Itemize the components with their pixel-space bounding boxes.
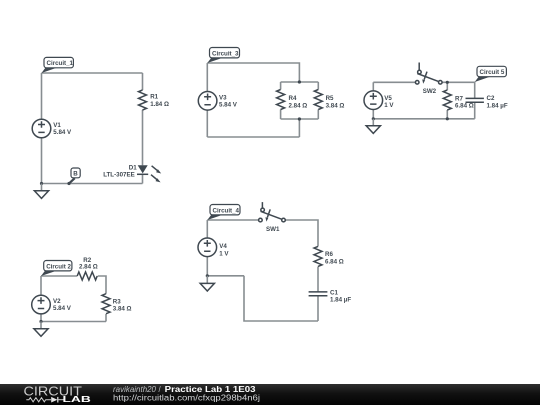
label R1 xyxy=(150,94,158,101)
label R5 value xyxy=(326,102,345,109)
svg-text:D1: D1 xyxy=(129,164,137,171)
label R6 value xyxy=(325,259,344,266)
label V1 xyxy=(53,122,61,129)
svg-text:R3: R3 xyxy=(113,298,121,305)
wire Circuit 5 top right xyxy=(442,82,475,98)
label V3 value xyxy=(219,102,238,109)
svg-text:R7: R7 xyxy=(455,95,463,102)
svg-text:V3: V3 xyxy=(219,94,227,101)
wire Circuit_4 V4 top lead xyxy=(206,220,208,238)
label D1 xyxy=(129,164,137,171)
wire Circuit_1 right middle xyxy=(142,110,144,165)
net flag Circuit_4 xyxy=(207,205,240,221)
label R2 xyxy=(83,257,91,264)
CircuitLab logo resistor-diode squiggle xyxy=(26,397,64,403)
capacitor C1 xyxy=(309,292,328,296)
wire Circuit_3 R5 leads xyxy=(317,82,319,119)
voltage source V5 xyxy=(364,91,383,110)
wire Circuit_4 top left xyxy=(207,219,258,221)
label R7 value xyxy=(455,103,474,110)
voltage source V1 xyxy=(32,119,51,138)
footer line 1: title xyxy=(165,385,257,394)
svg-text:Circuit_4: Circuit_4 xyxy=(213,207,240,214)
svg-text:SW1: SW1 xyxy=(266,226,280,233)
label R3 xyxy=(113,298,121,305)
svg-text:http://circuitlab.com/cfxqp298: http://circuitlab.com/cfxqp298b4n6j xyxy=(113,394,260,403)
svg-text:1.84 µF: 1.84 µF xyxy=(487,102,508,109)
wire Circuit_3 bottom xyxy=(207,136,299,138)
label R7 xyxy=(455,95,463,102)
junction Circuit_1 ground node xyxy=(40,182,43,185)
net flag Circuit 5 xyxy=(475,66,507,82)
svg-text:C1: C1 xyxy=(330,289,338,296)
svg-text:6.84 Ω: 6.84 Ω xyxy=(325,259,344,266)
wire Circuit 2 bottom xyxy=(41,321,106,323)
footer line 1: slash xyxy=(159,385,162,394)
node flag B xyxy=(67,168,80,185)
svg-text:3.84 Ω: 3.84 Ω xyxy=(113,305,132,312)
wire Circuit_4 bottom xyxy=(244,276,318,321)
svg-text:Circuit 5: Circuit 5 xyxy=(480,69,505,76)
label SW1 xyxy=(266,226,280,233)
svg-text:R5: R5 xyxy=(326,95,334,102)
svg-text:Circuit_1: Circuit_1 xyxy=(47,60,74,67)
resistor R2 xyxy=(77,272,97,280)
wire Circuit 2 top left xyxy=(41,275,77,277)
label V3 xyxy=(219,94,227,101)
label C2 value xyxy=(487,102,508,109)
label C1 xyxy=(330,289,338,296)
wire Circuit_3 parallel top bar xyxy=(281,81,319,83)
wire Circuit_3 R4 leads xyxy=(280,82,282,119)
svg-text:1 V: 1 V xyxy=(219,250,229,257)
CircuitLab logo wordmark CIRCUIT xyxy=(24,384,83,399)
label V2 xyxy=(53,298,61,305)
svg-text:3.84 Ω: 3.84 Ω xyxy=(326,102,345,109)
wire Circuit 2 top right xyxy=(98,276,106,294)
voltage source V3 xyxy=(198,92,217,111)
resistor R4 xyxy=(277,90,285,110)
wire Circuit_3 parallel bottom bar xyxy=(281,118,319,120)
wire Circuit 2 left upper xyxy=(40,276,42,295)
wire Circuit 5 R7 leads xyxy=(446,82,448,119)
label R4 xyxy=(289,95,297,102)
svg-text:R4: R4 xyxy=(289,95,297,102)
svg-text:Circuit 2: Circuit 2 xyxy=(46,263,71,270)
svg-text:1.84 µF: 1.84 µF xyxy=(330,297,351,304)
label R3 value xyxy=(113,305,132,312)
label V5 value xyxy=(384,102,394,109)
switch SW1 xyxy=(259,202,286,222)
label SW2 xyxy=(423,88,437,95)
wire Circuit 5 V5 top lead xyxy=(372,82,374,91)
junction Circuit 5 R7 top xyxy=(446,81,449,84)
wire Circuit_4 right lower xyxy=(317,296,319,321)
capacitor C2 xyxy=(466,98,484,102)
svg-text:LAB: LAB xyxy=(63,394,91,404)
ground (Circuit_1) xyxy=(34,184,48,199)
label C2 xyxy=(487,95,495,102)
label R5 xyxy=(326,95,334,102)
wire Circuit 5 V5 bottom lead xyxy=(372,110,374,119)
label D1 part number xyxy=(103,172,135,179)
svg-text:1.84 Ω: 1.84 Ω xyxy=(150,101,169,108)
junction Circuit_4 ground node xyxy=(206,274,209,277)
wire Circuit_1 top xyxy=(42,72,143,74)
ground (Circuit 5) xyxy=(366,119,380,134)
resistor R6 xyxy=(314,246,322,266)
svg-text:C2: C2 xyxy=(487,95,495,102)
svg-text:6.84 Ω: 6.84 Ω xyxy=(455,103,474,110)
junction Circuit 5 ground node xyxy=(372,117,375,120)
voltage source V4 xyxy=(198,238,217,257)
label V4 value xyxy=(219,250,229,257)
svg-text:LTL-307EE: LTL-307EE xyxy=(103,172,135,179)
LED D1 xyxy=(137,165,161,182)
footer line 1: user name xyxy=(113,385,157,394)
label R2 value xyxy=(79,264,98,271)
resistor R5 xyxy=(314,90,322,110)
svg-text:R1: R1 xyxy=(150,94,158,101)
footer line 2: url xyxy=(113,394,260,403)
label V2 value xyxy=(53,305,72,312)
svg-text:1 V: 1 V xyxy=(384,102,394,109)
net flag Circuit_3 xyxy=(207,48,239,64)
switch SW2 xyxy=(415,63,442,85)
svg-text:Circuit_3: Circuit_3 xyxy=(212,50,239,57)
resistor R1 xyxy=(139,90,147,110)
label C1 value xyxy=(330,297,351,304)
wire Circuit_4 right middle xyxy=(317,267,319,292)
wire Circuit_1 right upper xyxy=(142,73,144,90)
svg-text:B: B xyxy=(73,171,78,178)
voltage source V2 xyxy=(32,295,51,314)
wire Circuit_4 return xyxy=(207,275,244,277)
resistor R7 xyxy=(443,90,451,110)
ground (Circuit 2) xyxy=(34,322,48,337)
svg-text:2.84 Ω: 2.84 Ω xyxy=(79,264,98,271)
wire Circuit_1 left upper xyxy=(41,73,43,119)
svg-text:5.84 V: 5.84 V xyxy=(219,102,238,109)
svg-text:2.84 Ω: 2.84 Ω xyxy=(289,102,308,109)
wire Circuit_3 right lower xyxy=(298,119,300,137)
svg-text:R6: R6 xyxy=(325,251,333,258)
svg-text:V4: V4 xyxy=(219,243,227,250)
label R1 value xyxy=(150,101,169,108)
wire Circuit 2 right lower xyxy=(105,314,107,322)
junction Circuit_3 top node xyxy=(298,80,301,83)
label R6 xyxy=(325,251,333,258)
wire Circuit_4 V4 bottom lead xyxy=(206,256,208,275)
resistor R3 xyxy=(102,294,110,314)
wire Circuit 5 top left xyxy=(373,81,415,83)
wire Circuit 5 bottom xyxy=(373,118,474,120)
label V4 xyxy=(219,243,227,250)
svg-text:V1: V1 xyxy=(53,122,61,129)
junction Circuit_3 bottom node xyxy=(298,117,301,120)
svg-text:V5: V5 xyxy=(384,95,392,102)
CircuitLab logo wordmark LAB xyxy=(63,394,91,404)
net flag Circuit_1 xyxy=(42,57,74,73)
junction Circuit 5 R7 bottom xyxy=(446,117,449,120)
junction Circuit 2 ground node xyxy=(39,320,42,323)
wire Circuit_3 left upper xyxy=(206,63,208,92)
svg-text:SW2: SW2 xyxy=(423,88,437,95)
wire Circuit_3 left lower xyxy=(206,110,208,137)
svg-text:V2: V2 xyxy=(53,298,61,305)
label V1 value xyxy=(53,129,72,136)
net flag Circuit 2 xyxy=(41,261,72,277)
svg-text:5.84 V: 5.84 V xyxy=(53,305,72,312)
wire Circuit_1 bottom xyxy=(42,183,143,185)
wire Circuit_1 right lower xyxy=(142,174,144,183)
label R4 value xyxy=(289,102,308,109)
wire Circuit_4 top right xyxy=(285,220,318,246)
svg-text:5.84 V: 5.84 V xyxy=(53,129,72,136)
wire Circuit_3 top xyxy=(207,63,299,82)
wire Circuit 5 C2 bottom lead xyxy=(474,102,476,119)
label V5 xyxy=(384,95,392,102)
wire Circuit_1 left lower xyxy=(41,138,43,184)
ground (Circuit_4) xyxy=(200,276,214,291)
wire Circuit 2 left lower xyxy=(40,314,42,322)
